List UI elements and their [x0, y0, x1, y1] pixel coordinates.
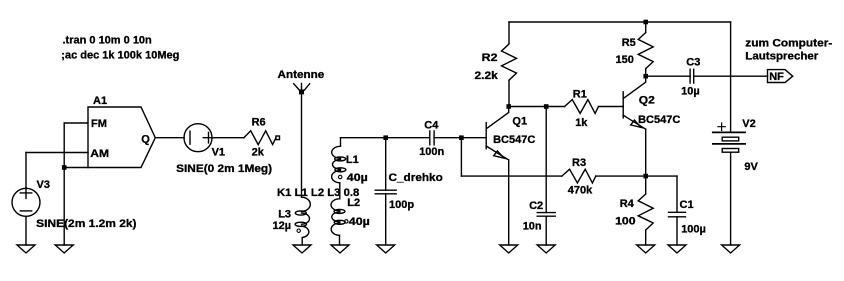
- svg-text:R3: R3: [572, 157, 586, 169]
- Q1 collector stub and diagonal: [486, 107, 509, 129]
- capacitor C4 plates: [430, 131, 434, 145]
- net flag NF: [768, 70, 793, 83]
- wire Q1 emitter down: [508, 160, 510, 245]
- wire C2 bottom: [545, 216, 547, 245]
- V1 minus bar: [189, 131, 191, 144]
- wire junction to C4: [386, 137, 430, 139]
- svg-text:C4: C4: [424, 119, 439, 131]
- ground at C1: [668, 245, 686, 253]
- svg-text:150: 150: [616, 54, 634, 66]
- node junction at FM/AM column: [62, 165, 67, 170]
- wire antenna down to L3: [301, 84, 303, 198]
- wire C3 to NF: [694, 75, 768, 77]
- battery V2 plate 3: [713, 143, 745, 145]
- inductor L3 coil: [302, 197, 311, 211]
- svg-text:L2: L2: [347, 197, 360, 209]
- svg-text:2k: 2k: [252, 146, 265, 158]
- wire FM stub: [64, 122, 88, 124]
- wire collector to C3: [646, 75, 690, 77]
- svg-text:9V: 9V: [744, 161, 758, 173]
- wire L1 top lead: [340, 138, 342, 147]
- svg-text:R2: R2: [482, 52, 498, 64]
- wire V3 bottom: [25, 216, 27, 245]
- capacitor C3 plates: [690, 69, 694, 83]
- ground at Q1 emitter: [500, 245, 518, 253]
- wire emitter node to C1: [646, 175, 677, 177]
- wire C_drehko top: [385, 138, 387, 191]
- resistor R6 zigzag: [244, 131, 276, 145]
- wire Q1 base: [461, 137, 486, 139]
- svg-text:SINE(0 2m 1Meg): SINE(0 2m 1Meg): [176, 163, 272, 175]
- V2 plus sign: [718, 123, 725, 130]
- wire Q output to V1: [155, 137, 184, 139]
- Q1 emitter arrow: [494, 151, 504, 158]
- svg-text:C1: C1: [680, 199, 694, 211]
- wire R1 to Q2 base: [599, 106, 624, 108]
- V3 minus sign: [20, 210, 31, 212]
- svg-text:C_drehko: C_drehko: [389, 172, 444, 184]
- top supply rail: [509, 21, 731, 23]
- Q1 emitter diagonal: [486, 146, 509, 160]
- L3 phase dot: [297, 229, 300, 232]
- node junction at C2 top: [544, 104, 549, 109]
- svg-text:BC547C: BC547C: [493, 134, 535, 146]
- svg-text:V2: V2: [742, 118, 755, 130]
- svg-text:FM: FM: [91, 118, 107, 130]
- svg-text:100µ: 100µ: [681, 224, 706, 236]
- ground at R4: [637, 245, 655, 253]
- node junction at Q2 emitter: [643, 174, 648, 179]
- capacitor C2 plates: [537, 213, 555, 217]
- open terminal square R6: [276, 136, 280, 140]
- wire base node down: [460, 138, 462, 176]
- voltage source V1 circle: [184, 124, 212, 152]
- svg-text:R4: R4: [620, 198, 635, 210]
- ground at V2: [722, 245, 740, 253]
- wire V1 to R6: [212, 137, 244, 139]
- wire L2 to ground: [339, 235, 341, 245]
- svg-text:BC547C: BC547C: [638, 114, 680, 126]
- svg-text:100n: 100n: [419, 146, 444, 158]
- wire vertical FM node to ground: [63, 123, 65, 245]
- svg-text:Q: Q: [141, 133, 150, 145]
- svg-text:L3: L3: [278, 208, 291, 220]
- inductor L2 coil: [331, 199, 340, 211]
- svg-text:V3: V3: [37, 179, 50, 191]
- svg-text:Lautsprecher: Lautsprecher: [745, 51, 819, 63]
- collector rail Q1 to R1: [509, 106, 565, 108]
- wire between L1 and L2: [339, 183, 341, 199]
- svg-text:L1: L1: [346, 154, 359, 166]
- wire R3 left: [461, 175, 561, 177]
- transistor Q2 base bar: [622, 92, 624, 118]
- wire C_drehko bottom: [385, 194, 387, 245]
- resistor R2 top lead: [508, 22, 510, 44]
- L1 phase dot: [339, 175, 342, 178]
- wire rail down to battery: [730, 22, 732, 132]
- svg-text:10µ: 10µ: [681, 85, 700, 97]
- wire C1 top: [676, 176, 678, 212]
- resistor R2 bottom lead: [508, 80, 510, 106]
- wire Q2 emitter down: [645, 129, 647, 176]
- node junction rail at R5: [643, 20, 648, 25]
- svg-text:1k: 1k: [575, 117, 588, 129]
- wire tank top corner: [341, 137, 386, 139]
- svg-text:C3: C3: [686, 57, 700, 69]
- capacitor C1 plates: [669, 212, 686, 217]
- svg-text:100: 100: [615, 215, 636, 227]
- V3 plus sign: [20, 187, 31, 198]
- resistor R3 zigzag: [562, 169, 596, 183]
- ground at V3: [17, 245, 35, 253]
- wire R3 right: [596, 175, 646, 177]
- svg-text:NF: NF: [769, 71, 784, 83]
- Q2 emitter diagonal: [623, 115, 646, 129]
- svg-text:zum Computer-: zum Computer-: [745, 38, 832, 50]
- svg-text:40µ: 40µ: [347, 172, 368, 184]
- svg-text:AM: AM: [90, 148, 109, 160]
- inductor L1 coil: [332, 146, 341, 158]
- resistor R5 top lead: [645, 22, 647, 33]
- V1 plus sign: [203, 133, 213, 143]
- node junction at Q1 base: [459, 135, 464, 140]
- battery V2 plate 2: [722, 137, 739, 141]
- wire L3 to ground: [301, 238, 303, 245]
- antenna flag square: [299, 89, 304, 94]
- wire C4 to Q1 base node: [434, 137, 461, 139]
- capacitor C_drehko plates: [375, 190, 396, 194]
- op-amp-like modulator A1 body: [88, 107, 155, 168]
- resistor R4 zigzag: [638, 194, 653, 230]
- svg-text:Q1: Q1: [512, 115, 527, 127]
- svg-text:100p: 100p: [389, 199, 414, 211]
- svg-text:.tran 0 10m 0 10n: .tran 0 10m 0 10n: [63, 35, 153, 47]
- resistor R1 zigzag: [565, 100, 599, 114]
- svg-text:R6: R6: [252, 117, 266, 129]
- svg-text:R5: R5: [622, 37, 636, 49]
- voltage source V3 circle: [12, 188, 40, 216]
- ground at C_drehko: [377, 245, 395, 253]
- wire stub to A1 bottom: [64, 167, 88, 169]
- battery V2 plate 4: [722, 149, 739, 153]
- battery V2 plate 1: [713, 131, 745, 133]
- wire V3 top: [25, 153, 27, 189]
- svg-text:Antenne: Antenne: [278, 69, 325, 81]
- svg-text:Q2: Q2: [639, 95, 655, 107]
- svg-text:A1: A1: [93, 95, 107, 107]
- svg-text:R1: R1: [573, 89, 587, 101]
- ground at L3: [293, 245, 311, 253]
- antenna flag slants: [294, 84, 310, 90]
- wire AM from V3: [26, 152, 88, 154]
- svg-text:12µ: 12µ: [273, 220, 292, 232]
- resistor R2 zigzag: [502, 44, 517, 80]
- node junction at C_drehko top: [383, 135, 388, 140]
- node junction at Q2 collector: [643, 74, 648, 79]
- resistor R5 bottom lead: [645, 69, 647, 77]
- node junction at Q1 collector: [506, 104, 511, 109]
- svg-text:V1: V1: [212, 146, 225, 158]
- ground at L2: [331, 245, 349, 253]
- ground at FM node: [55, 245, 73, 253]
- svg-text:C2: C2: [529, 200, 543, 212]
- ground at C2: [537, 245, 555, 253]
- resistor R4 bottom lead: [645, 230, 647, 245]
- Q2 collector stub and diagonal: [623, 76, 646, 98]
- L2 phase dot: [345, 220, 348, 223]
- transistor Q1 base bar: [485, 123, 487, 149]
- resistor R5 zigzag: [638, 33, 653, 69]
- wire battery to ground: [730, 152, 732, 245]
- svg-text:2.2k: 2.2k: [475, 70, 499, 82]
- svg-text:SINE(2m 1.2m 2k): SINE(2m 1.2m 2k): [36, 218, 137, 230]
- wire R4 top: [645, 176, 647, 194]
- Q2 emitter arrow: [631, 120, 641, 127]
- svg-text:;ac dec 1k 100k 10Meg: ;ac dec 1k 100k 10Meg: [61, 50, 179, 62]
- wire C2 down: [545, 107, 547, 213]
- svg-text:40µ: 40µ: [349, 216, 370, 228]
- svg-text:10n: 10n: [523, 221, 542, 233]
- wire C1 bottom: [676, 217, 678, 245]
- svg-text:470k: 470k: [568, 184, 593, 196]
